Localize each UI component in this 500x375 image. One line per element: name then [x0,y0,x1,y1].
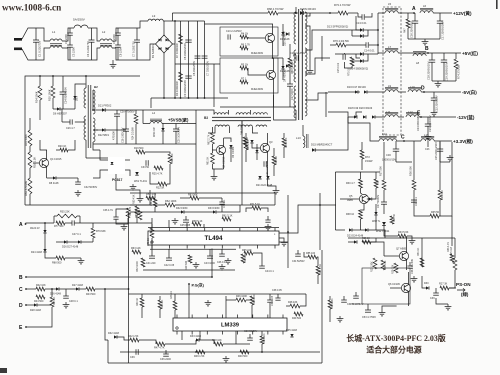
wire ps top lead [348,241,354,243]
components above TL494 R62 100K [165,203,175,207]
diode D32 FR30 [181,210,184,213]
svg-text:C24 3300/16V: C24 3300/16V [417,115,420,131]
capacitor C23b top label [427,141,429,147]
main transformer T1 [298,9,300,120]
wire b3 s3 [252,127,258,133]
wire bridge top rail [205,24,273,27]
wire r38 dn [360,219,362,230]
wire d14 in2 [352,60,360,62]
AC plug prongs [14,38,22,41]
wire d6 lead [53,108,57,110]
wire fuse out [88,27,95,29]
wire lm bot chain4 [199,340,214,344]
wire zd1 top [75,84,86,90]
box around ps-on driver [362,268,410,304]
wire d13 out2 [363,30,368,36]
svg-text:R46 100K: R46 100K [236,295,247,298]
diode D24 4148 [43,249,46,252]
svg-text:LM339: LM339 [221,323,240,329]
svg-text:MJE13009: MJE13009 [251,52,264,55]
capacitor C3 2200 [67,44,73,46]
wire t1 sec 3 [305,58,330,74]
wire c15 top [343,53,345,54]
capacitor C22 2200/10V [433,92,435,98]
left resistor column R15 500K [28,130,32,146]
common mode choke L2 [100,39,112,41]
svg-text:C19 2200U/10V: C19 2200U/10V [445,62,449,81]
op-amp IC TL494 [148,231,279,245]
ground -12v [427,134,429,137]
svg-text:D26 D27 4148: D26 D27 4148 [62,246,79,249]
capacitor C23 3300/16V [427,117,429,124]
wire bulk bus vertical 2 [180,21,182,98]
wire c39 gnd [436,298,448,304]
wire net to lm339 [105,288,129,290]
svg-text:R38 10: R38 10 [346,213,355,216]
svg-text:Q6 C1945: Q6 C1945 [388,282,400,286]
svg-text:R47: R47 [404,28,407,33]
wire q2 base [248,68,266,75]
svg-text:R50: R50 [377,180,380,185]
wire d13 to L5 [356,16,360,30]
svg-text:C38 2.2U/50V: C38 2.2U/50V [411,259,414,274]
wire b3 sec coil to drop [241,121,243,133]
svg-text:C34 0.05: C34 0.05 [271,295,274,306]
svg-text:C16 2200/16V: C16 2200/16V [410,21,414,38]
capacitor C1 0.22/275V [35,28,37,40]
svg-text:R36 500: R36 500 [409,166,413,176]
wire L10 out [421,91,424,93]
ground AC filter [112,62,114,65]
resistor R43b 1K [173,301,177,310]
svg-text:R24 2/0.5W: R24 2/0.5W [132,127,135,140]
resistor R6 2.7K [240,46,248,50]
resistor R57c 470 [126,208,130,218]
capacitor C7 0.22/275V [136,28,138,40]
resistor R35 50 [430,214,439,218]
svg-text:C30: C30 [386,153,391,157]
wire above tl3 [221,205,223,212]
svg-text:C28 470/50V: C28 470/50V [120,111,135,114]
resistor R63b 12K [132,250,141,254]
svg-text:R44 500: R44 500 [34,300,44,303]
svg-text:D24 4148: D24 4148 [31,251,42,254]
wire ps chain2 [422,276,426,288]
svg-text:R72: R72 [365,155,370,159]
svg-text:R57 500: R57 500 [379,166,383,176]
svg-text:C41 220: C41 220 [146,262,156,265]
half bridge box Q2 [220,58,278,93]
wire dnet d [81,241,93,243]
junction dots bus [295,12,297,14]
diode D28 4148 [34,303,37,306]
node D right [423,91,425,93]
resistor R66 10 [272,156,276,165]
wire a-net to pin [93,222,152,224]
wire r73b [348,12,358,14]
svg-text:www.1008-6.cn: www.1008-6.cn [2,3,61,13]
comparator IC LM339 [173,318,287,331]
wire c5 [95,288,105,290]
capacitor C40b 0.1 [221,198,223,202]
ground 3v3 [449,155,451,158]
wire bulk bus vertical 4 [197,21,199,98]
wire r57c dn [124,218,128,224]
wire r72 top [361,142,363,150]
wire opto left top [100,150,108,160]
svg-text:R7 100K/1W: R7 100K/1W [175,43,179,58]
capacitor C39 [135,349,137,355]
wire bulk bus vertical 3 [188,21,190,98]
wire boxes left [213,64,215,107]
wire d17 out [367,91,385,93]
wire tl494 to right [279,241,288,243]
wire gnd stub [112,60,114,62]
svg-text:A985: A985 [347,199,353,202]
inductor L15 [421,139,434,141]
ground q6 [213,174,215,177]
svg-text:W02 TL: W02 TL [372,220,381,223]
wire 12v gnd rail [408,38,440,40]
svg-text:C17 2200U/16V: C17 2200U/16V [441,21,445,40]
svg-text:C37 50/50V: C37 50/50V [347,303,361,306]
resistor R3 100K/1W [179,72,183,82]
diode D35 4148 [290,334,293,337]
resistor R42 10K [36,287,45,291]
common mode choke L1 [50,39,62,41]
svg-text:D8 4148: D8 4148 [49,182,59,185]
diode D24 4148 [365,228,368,231]
svg-text:C23: C23 [425,148,430,151]
svg-text:D15 MBR2045CT: D15 MBR2045CT [311,143,333,147]
wire d16 to L9 [356,91,360,93]
resistor R41b 100K [236,298,246,302]
capacitor C24b 82U/450V [62,76,64,92]
svg-text:R15 500K: R15 500K [24,134,28,146]
svg-text:R23 100K: R23 100K [371,261,374,272]
wire r47c b [300,294,306,306]
capacitor C25 2200/10V [439,141,441,149]
wire r61 gnd [213,164,215,169]
svg-text:R39 10K: R39 10K [263,333,266,343]
capacitor C36 2200 [165,350,167,354]
wire bulk bus vertical 1 [174,21,176,98]
svg-text:C38 0.05: C38 0.05 [272,289,282,292]
node B right [427,52,429,54]
label P.G [188,283,190,285]
diode D28b 4148 [354,240,357,243]
resistor R64 100 [241,254,245,263]
wire t1 pri join [293,54,296,56]
wire q8 em [408,291,410,306]
wire D chain [26,304,34,306]
svg-text:R27 3K: R27 3K [439,283,448,286]
capacitor C52 50/50V [297,250,299,254]
svg-text:+12V(黄): +12V(黄) [453,10,472,17]
svg-text:L6: L6 [423,4,427,8]
resistor R84 4.3K [316,266,320,275]
resistor R57b 47K [146,196,155,200]
svg-text:B: B [425,46,429,52]
resistor R53b 4.7K [450,254,454,262]
wire A right [26,222,55,224]
capacitor C45 0.05 [185,216,187,220]
wire c3 [59,288,76,290]
wire mid connect [240,204,275,206]
wire lm top3 [159,296,161,300]
diode D18b FR102 [250,140,253,143]
wire q5 rail [335,171,380,173]
wire L1 out top [62,28,74,41]
wire t1 left low [274,95,296,120]
wire tl output right [279,205,320,233]
wire q5 frame left [334,172,336,230]
wire dnet a [44,246,46,249]
capacitor C20 1000/10V [175,124,177,130]
node A right [413,12,415,14]
wire d22 out [105,129,126,131]
diode D2 4148 [286,64,289,67]
scan artifact bottom-left [0,368,7,373]
wire loop right [79,216,81,223]
transistor Q8 C1815 [401,283,410,292]
wire standby bottom [25,204,150,206]
capacitor C53 4.7/50V [367,304,369,310]
diode D05 4148 [64,240,67,243]
svg-text:L5: L5 [388,2,392,6]
svg-text:C39: C39 [130,356,135,359]
wire lm bot chain2 [139,340,156,344]
shunt reg TL431 W32 [382,222,386,225]
diode D06 4148 [78,240,81,243]
resistor R24b 10K [381,260,385,270]
wire r71b [261,208,268,212]
svg-text:C7 331/250V: C7 331/250V [206,61,210,76]
inductor L12 [406,115,419,117]
svg-text:C3 2200: C3 2200 [72,47,76,57]
ground standby left [77,190,79,193]
wire E right [26,318,52,327]
wire L9 out [398,91,406,93]
wire into pin [151,218,153,228]
svg-text:C40 0.1: C40 0.1 [223,199,226,208]
svg-text:C32 50/50V: C32 50/50V [84,186,98,189]
resistor R33 5.6K [398,234,407,238]
components below TL494 capacitor C41 220 [151,249,153,256]
wire L2 in top [95,28,100,41]
wire rail above TL494 [148,227,279,229]
capacitor C38c 2.2U/50V [409,262,411,266]
transistor Q4 C1815 [39,158,48,167]
svg-text:D6 HER307: D6 HER307 [53,112,67,116]
wire lm vert c [269,303,271,318]
resistor R59 2.2K [282,138,286,147]
capacitor C37b 4.7/50V [355,292,357,296]
wire r35 to bus [414,200,430,216]
resistor R76 4.3/0.5W [336,43,346,47]
wire ps rail [348,237,455,239]
resistor R20 1K [60,148,68,152]
wire bus left up [107,340,109,363]
resistor R85 100 [308,255,317,259]
diode D33b 4148 [196,338,199,341]
svg-text:R20 1K: R20 1K [58,145,67,148]
ground fb right [123,224,125,227]
resistor R40b 1K [158,300,162,309]
svg-text:Q3: Q3 [269,140,273,144]
wire q stuff [362,242,384,256]
wire L3 to bridge [163,20,175,22]
svg-text:PS-ON: PS-ON [456,282,471,287]
wire d6 out [60,108,75,110]
svg-text:C25 2200U/10V: C25 2200U/10V [435,142,438,160]
resistor R55b 100K [51,86,55,98]
svg-text:R58 5.1K: R58 5.1K [192,220,203,223]
wire c30 gnd2 [396,161,412,163]
wire w02 up [375,204,377,212]
transformer B2 [87,85,89,148]
wire r54 top [39,76,41,86]
wire b3 p3 [249,110,251,115]
svg-text:R63 470/2W: R63 470/2W [24,181,28,196]
capacitor C46 1N/500V [263,161,265,167]
wire bus join [319,351,321,353]
svg-text:C22 2200/10V: C22 2200/10V [435,95,439,112]
resistor R74 270/1W [454,59,458,69]
svg-text:R40 500: R40 500 [238,355,248,358]
wire pin4 [203,224,205,228]
wire left long vertical [128,212,130,363]
capacitor C14b 0.01 [365,42,367,48]
A-net resistor R78 5K [150,228,154,238]
svg-text:R47 4.7K: R47 4.7K [154,347,165,350]
resistor R61 5K [211,153,215,164]
wire r20b [68,140,75,150]
svg-text:L14: L14 [382,132,387,136]
svg-text:470/50V: 470/50V [113,131,116,140]
svg-text:R26 1K: R26 1K [362,237,370,240]
wire tl431 down [384,225,398,236]
wire r62 dn [212,144,214,150]
wire c36 up [116,208,128,213]
svg-text:R74 270/1W: R74 270/1W [457,64,461,79]
wire c4 [79,288,86,290]
svg-text:R73 4.7/0.5W: R73 4.7/0.5W [334,3,351,7]
svg-text:W32 TL431: W32 TL431 [376,229,390,233]
svg-text:R76 4.3/0.5W: R76 4.3/0.5W [333,39,349,43]
svg-text:R66 10: R66 10 [275,155,278,164]
svg-text:R29 10K: R29 10K [392,264,395,274]
capacitor C2B 1000/10V [125,110,127,129]
wire q5 col [361,188,363,194]
ground ps-on [381,310,383,313]
svg-text:R63 12K: R63 12K [131,247,141,250]
wire d8 lead [47,177,53,179]
transformer B3 core [212,116,271,118]
resistor R34 640 [438,190,442,200]
svg-text:R29 300: R29 300 [185,260,188,270]
svg-text:C6 331/250V: C6 331/250V [192,61,196,76]
wire c32 lead [70,177,78,179]
resistor R19 500 [136,150,145,154]
wire q2 col [273,58,275,72]
wire long horiz y193 [130,192,275,194]
capacitor C30 10000/10V [395,141,397,149]
resistor R82 2.2K [240,350,249,354]
svg-text:D: D [19,303,23,309]
svg-text:R49 500: R49 500 [292,317,302,320]
wire b2 pri top [85,76,87,88]
wire lm top1 [141,294,143,298]
svg-text:R56 36K: R56 36K [150,196,153,206]
diode D23 4148 [349,228,352,231]
svg-text:B: B [19,275,23,281]
svg-text:TL494: TL494 [205,235,223,242]
wire lm rail3 [246,299,252,301]
svg-text:D13 SFP9200(X2): D13 SFP9200(X2) [327,25,348,29]
wire 5vsb right edge [195,110,197,144]
wire q7 base [384,255,399,257]
svg-text:L3: L3 [152,14,156,18]
wire d13 in2 [352,35,360,37]
wire q6 col [223,138,225,147]
wire top bus [172,12,268,14]
capacitor C16 2200/16V [414,13,416,21]
wire c14 out [369,44,378,46]
wire 5vsb down to y193 [195,144,197,193]
wire d13 join [351,30,353,36]
wire r45 up [51,289,53,297]
wire d24 out [368,230,385,238]
svg-text:D: D [421,86,425,92]
wire r59 [283,133,285,138]
resistor R45 1K [50,297,54,307]
transistor Q5 A985 [359,194,368,203]
ground 3v3 reg [411,238,413,241]
ground below tl494 [227,258,229,261]
wire c26 out [75,121,86,123]
resistor R68b 700 [243,137,247,146]
svg-text:D33 FR30: D33 FR30 [208,207,220,210]
svg-text:C1 0.22/275V: C1 0.22/275V [38,40,42,57]
wire q1 em [272,41,274,58]
resistor R48b 10K [214,342,223,346]
capacitor C50 50/50V [343,296,345,300]
wire ps chain [421,238,423,267]
svg-text:适合大部分电源: 适合大部分电源 [366,345,421,355]
svg-text:R86 200: R86 200 [253,294,256,304]
resistor R73 4.7/0.5W [338,11,348,15]
wire q7 em [406,259,408,270]
wire ps left1 [329,296,331,300]
resistor R49c 500 [294,312,303,316]
capacitor C7 331/250V [202,55,208,57]
svg-text:R22 5K: R22 5K [156,187,165,190]
resistor R47b [156,342,165,346]
inductor L14 [379,139,397,141]
wire loop r35 b [77,215,80,217]
dashed enclosure output toroid [383,7,401,135]
svg-text:ZD1: ZD1 [76,96,79,101]
wire b3 p2 [227,110,229,115]
inductor L4 [150,122,162,124]
wire r67b [245,150,247,162]
svg-text:R16 1.5K: R16 1.5K [33,157,37,168]
resistor R43 500 [86,287,95,291]
wire r66b [273,165,275,176]
diode D10 HER307 [281,32,284,35]
wire bottom bus inner [120,351,320,353]
